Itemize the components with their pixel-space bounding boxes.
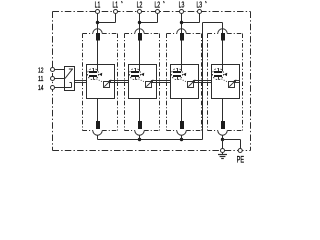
node bus junction L3 (180, 138, 183, 141)
arrester box module 2 (129, 65, 157, 99)
wire pin to arrester box module 4 (222, 41, 224, 65)
wire arrester box to bottom pin module 3 (181, 99, 183, 122)
protection module 3 dashed plug-in outline (167, 34, 202, 131)
svg-text:L3: L3 (196, 1, 202, 10)
svg-text:L1: L1 (95, 1, 101, 10)
plug pin top of module 4 (221, 33, 225, 41)
plug contact arch top of module 4 (218, 29, 227, 34)
wire entry stub inside module 3 (181, 65, 183, 72)
wire junction to L1' terminal (98, 12, 116, 23)
disconnector square module 1 (104, 80, 112, 88)
wire entry stub inside module 2 (139, 65, 141, 72)
svg-text:11: 11 (38, 74, 44, 83)
svg-text:L1: L1 (112, 1, 118, 10)
terminal 14 (51, 86, 55, 90)
terminal L1' (114, 10, 118, 14)
label L3' with prime tick (196, 1, 206, 10)
enclosure border (dash-dot device outline) (53, 12, 251, 151)
contact 12 fixed (69, 68, 73, 70)
disconnector square module 2 (146, 80, 154, 88)
svg-text:L2: L2 (137, 1, 143, 10)
plug pin bottom of module 2 (138, 121, 142, 129)
node junction L2 (138, 21, 141, 24)
node module 4 bottom junction (221, 138, 224, 141)
triggered spark gap module 3 (171, 68, 186, 80)
protection module 4 dashed plug-in outline (208, 34, 243, 131)
svg-text:12: 12 (38, 65, 44, 74)
label L1' with prime tick (112, 1, 122, 10)
terminal PE (238, 149, 242, 153)
wire junction to L3' terminal (182, 12, 200, 23)
disconnector square module 4 (229, 80, 237, 88)
contact 14 fixed (70, 82, 72, 84)
plug contact arch top of module 1 (93, 29, 102, 34)
plug contact cup bottom of module 3 (177, 131, 186, 136)
terminal 11 (51, 77, 55, 81)
plug contact cup bottom of module 2 (135, 131, 144, 136)
changeover contact moving arm (65, 69, 72, 78)
wire arrester box to bottom pin module 2 (139, 99, 141, 122)
wire cup to bus module 4 (222, 135, 224, 139)
mechanical link double line from module 3 (194, 81, 212, 83)
wire L2 terminal down to junction (139, 12, 141, 34)
wire entry stub inside module 4 (222, 65, 224, 72)
disconnector square module 3 (188, 80, 196, 88)
triggered spark gap module 1 (87, 68, 102, 80)
wire cup to bus module 1 (97, 135, 99, 139)
dashed trigger link module 4 (222, 79, 229, 82)
plug pin top of module 1 (96, 33, 100, 41)
wire junction to L2' terminal (140, 12, 158, 23)
wire cup to bus module 3 (181, 135, 183, 139)
dashed trigger link module 3 (181, 79, 188, 82)
mechanical link double line from module 2 (152, 81, 171, 83)
plug pin top of module 2 (138, 33, 142, 41)
terminal L3' (198, 10, 202, 14)
svg-text:L3: L3 (179, 1, 185, 10)
dashed trigger link module 2 (139, 79, 146, 82)
plug pin top of module 3 (180, 33, 184, 41)
wire L1 terminal down to junction (97, 12, 99, 34)
dashed trigger link module 1 (97, 79, 104, 82)
wire terminal 12 to contact box (55, 69, 65, 71)
plug contact cup bottom of module 1 (93, 131, 102, 136)
triggered spark gap module 4 (212, 68, 227, 80)
plug contact cup bottom of module 4 (218, 131, 227, 136)
wire entry stub inside module 1 (97, 65, 99, 72)
svg-text:PE: PE (237, 155, 245, 165)
wire arrester box to bottom pin module 1 (97, 99, 99, 122)
node junction L1 (96, 21, 99, 24)
terminal L2' (156, 10, 160, 14)
arrester box module 4 (212, 65, 240, 99)
wire L3 terminal down to junction (181, 12, 183, 34)
plug pin bottom of module 3 (180, 121, 184, 129)
wire junction to PE terminal (223, 140, 241, 151)
terminal 12 (51, 68, 55, 72)
wire pin to arrester box module 2 (139, 41, 141, 65)
wire terminal 14 to contact box (55, 83, 72, 88)
mechanical link double line from module 1 (110, 81, 129, 83)
wire N collecting bus (98, 139, 203, 141)
arrester box module 3 (171, 65, 199, 99)
wire arrester box to bottom pin module 4 (222, 99, 224, 122)
node junction L3 (180, 21, 183, 24)
svg-text:L2: L2 (154, 1, 160, 10)
arrester box module 1 (87, 65, 115, 99)
protection module 2 dashed plug-in outline (125, 34, 160, 131)
plug contact arch top of module 3 (177, 29, 186, 34)
wire N-bus riser to module 4 top (203, 23, 223, 140)
wire pin to arrester box module 3 (181, 41, 183, 65)
protection module 1 dashed plug-in outline (83, 34, 118, 131)
label L2' with prime tick (154, 1, 164, 10)
terminal L3 (180, 10, 184, 14)
wire cup to bus module 2 (139, 135, 141, 139)
mechanical link double line from signalling contact to module 1 (75, 81, 87, 83)
triggered spark gap module 2 (129, 68, 144, 80)
terminal L1 (96, 10, 100, 14)
node bus junction L2 (138, 138, 141, 141)
wire terminal 11 to contact box (55, 78, 65, 80)
plug contact arch top of module 2 (135, 29, 144, 34)
remote signalling changeover contact box (65, 67, 75, 91)
wire pin to arrester box module 1 (97, 41, 99, 65)
terminal L2 (138, 10, 142, 14)
mechanical link double line from module 4 (235, 81, 240, 83)
plug pin bottom of module 4 (221, 121, 225, 129)
wire junction to earth terminal (222, 140, 224, 151)
ground symbol (218, 153, 227, 159)
plug pin bottom of module 1 (96, 121, 100, 129)
terminal earth (221, 149, 225, 153)
svg-text:14: 14 (38, 83, 44, 92)
